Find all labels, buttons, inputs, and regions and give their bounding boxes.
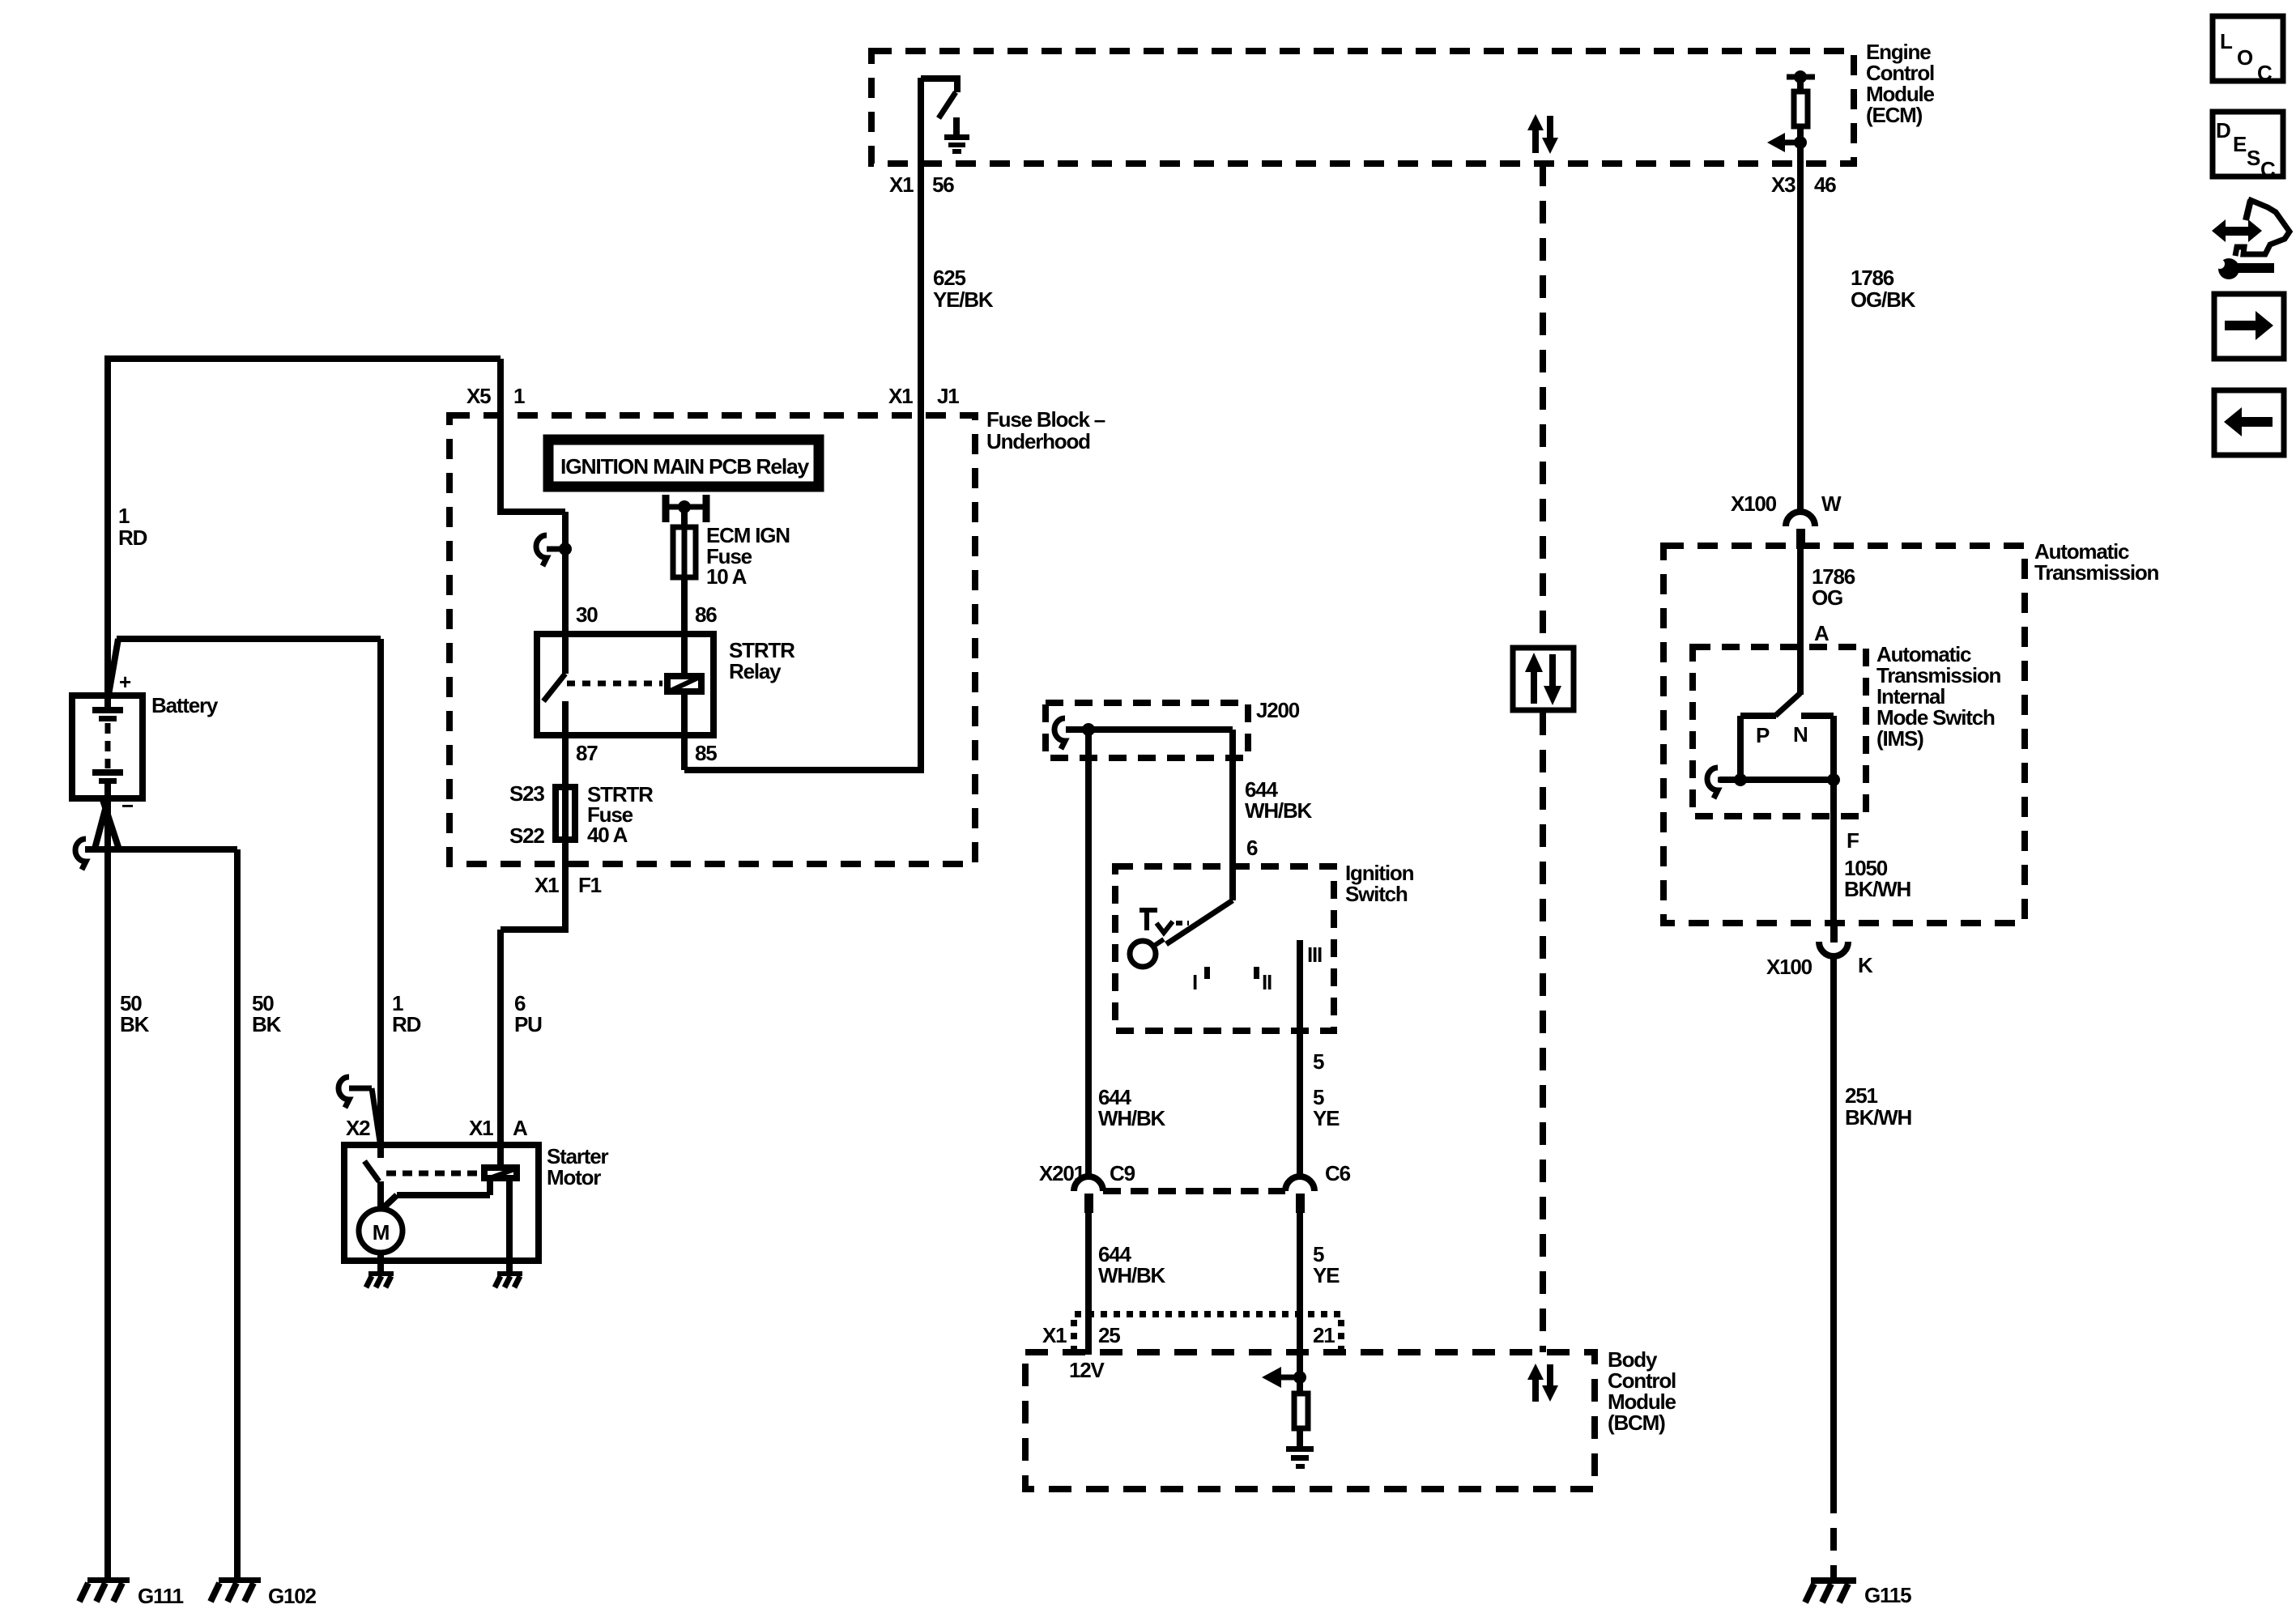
ground G115 [1805,1577,1856,1602]
label 644 WH/BK (above C9) [1098,1085,1166,1130]
label Automatic Transmission Internal Mode Switch (IMS) [1876,642,2001,751]
svg-text:J200: J200 [1256,698,1300,722]
wire battery positive vertical to top rail [104,359,111,696]
label S22 [509,823,544,848]
label pin 86 [695,602,717,627]
svg-text:OG/BK: OG/BK [1851,287,1916,312]
connector X100 pin K [1819,923,1848,956]
battery negative sign [121,794,134,818]
wire fuse to relay pin 86 [681,580,688,673]
svg-text:Fuse Block –: Fuse Block – [986,407,1105,432]
svg-text:RD: RD [118,526,147,550]
ground under solenoid [495,1271,522,1287]
svg-text:BK: BK [120,1012,150,1036]
svg-text:5: 5 [1313,1049,1324,1074]
ECM serial data arrows [1527,114,1558,154]
wire J200 bus [1066,726,1233,733]
svg-text:IGNITION MAIN PCB Relay: IGNITION MAIN PCB Relay [560,454,810,479]
svg-text:C6: C6 [1325,1161,1351,1185]
sidebar LOC icon [2213,16,2283,85]
dashed harness link X201 [1103,1188,1285,1194]
BCM dashed box [1025,1352,1595,1489]
label connector X1 pin F1 [535,873,602,897]
svg-text:Motor: Motor [547,1165,601,1189]
wire solenoid to ground [506,1181,513,1273]
label 5 YE (below C6) [1313,1242,1340,1287]
relay actuation dashed link [567,681,662,687]
IMS contact N [1801,716,1834,780]
svg-text:A: A [1814,621,1830,645]
svg-text:C: C [2260,157,2276,181]
svg-text:E: E [2233,132,2247,156]
label X100 W [1731,491,1842,516]
svg-text:P: P [1756,723,1770,747]
splice at battery negative terminal [94,800,120,852]
svg-text:X1: X1 [1042,1323,1067,1347]
wire 1 RD down to starter motor X2 [377,639,384,1158]
sidebar next arrow icon [2214,294,2284,359]
label connector X1 pin J1 [888,384,959,408]
svg-text:S: S [2247,146,2260,170]
IGNITION MAIN PCB Relay label box [548,440,819,487]
BCM internal signal ground [1286,1446,1314,1469]
ECM internal pull-up resistor [1787,70,1815,146]
label X1 (BCM connector) [1042,1323,1067,1347]
wire down to G102 [234,849,241,1579]
fuse ECM IGN 10A [673,527,696,577]
BCM connector dotted box X1 [1074,1314,1341,1352]
wire X100 W into IMS (1786 OG) [1797,549,1804,695]
svg-text:10 A: 10 A [706,564,748,589]
label STRTR Fuse 40 A [587,782,654,847]
label pin 85 [695,741,717,765]
svg-text:X100: X100 [1766,955,1813,979]
svg-text:X1: X1 [888,384,913,408]
svg-text:46: 46 [1814,172,1836,197]
svg-text:I: I [1192,970,1197,994]
svg-text:F1: F1 [578,873,602,897]
svg-text:251: 251 [1845,1083,1878,1108]
junction dot relay 30 feed [559,543,572,555]
svg-text:II: II [1262,970,1272,994]
svg-text:625: 625 [933,266,966,290]
sidebar previous arrow icon [2214,390,2284,455]
svg-text:12V: 12V [1069,1358,1105,1382]
sidebar DESC icon [2213,112,2283,181]
svg-text:56: 56 [932,172,954,197]
BCM pull-down resistor [1294,1377,1308,1447]
IMS common bus [1719,777,1836,783]
junction dot IMS N [1827,773,1840,786]
svg-text:85: 85 [695,741,717,765]
svg-text:N: N [1793,722,1808,747]
label ECM IGN Fuse 10 A [706,523,790,589]
label 1050 BK/WH [1844,856,1911,901]
svg-text:(IMS): (IMS) [1876,726,1923,751]
wire 251 BK/WH down [1830,956,1837,1491]
label X100 K [1766,953,1873,979]
svg-text:WH/BK: WH/BK [1098,1263,1166,1287]
wire negative horizontal to G102 branch [85,846,237,853]
svg-text:A: A [513,1116,528,1140]
label N [1793,722,1808,747]
label Fuse Block Underhood [986,407,1105,453]
label 1 RD (battery feed) [118,504,147,550]
junction dot IMS P [1734,773,1747,786]
svg-text:1786: 1786 [1851,266,1894,290]
label X201 [1039,1161,1085,1185]
J200 dashed box [1046,703,1248,758]
ignition position II mark [1254,967,1272,994]
ignition position III mark [1307,943,1322,967]
svg-text:25: 25 [1098,1323,1120,1347]
starter solenoid dashed link [386,1171,479,1177]
svg-text:X1: X1 [889,172,914,197]
wire ECM 56 down through fuse block (625 YE/BK) [918,78,924,773]
label 12V [1069,1358,1105,1382]
svg-text:6: 6 [1246,836,1258,860]
label connector X3 pin 46 [1771,172,1836,197]
wire X5 drop into fuse block [497,359,504,512]
label pin 87 [576,741,598,765]
clip at IMS bus [1707,768,1737,798]
fuse block underhood dashed box [449,415,975,864]
label C6 [1325,1161,1351,1185]
label pin 21 [1313,1323,1335,1347]
label Ignition Switch [1345,861,1414,906]
label pin 30 [576,602,598,627]
svg-text:L: L [2220,29,2233,53]
label G115 [1864,1583,1911,1607]
IMS selector blade [1775,693,1800,716]
label J200 [1256,698,1300,722]
wire C9 to BCM pin 25 [1085,1213,1092,1355]
starter motor box [344,1145,539,1261]
fuse STRTR 40A [556,787,575,840]
svg-text:S22: S22 [509,823,544,848]
label S23 [509,781,544,806]
label Battery [151,693,219,717]
label pin A [1814,621,1830,645]
svg-text:40 A: 40 A [587,823,628,847]
svg-text:1: 1 [513,384,525,408]
starter solenoid coil [484,1168,517,1179]
svg-text:WH/BK: WH/BK [1245,798,1313,823]
svg-text:(BCM): (BCM) [1608,1411,1665,1435]
label 1786 OG [1812,564,1855,610]
wire relay coil to pin 85 [681,695,688,770]
wire 644 WH/BK left branch down to C9 [1085,730,1092,1177]
svg-text:87: 87 [576,741,598,765]
label P [1756,723,1770,747]
starter contact blade [364,1161,381,1210]
svg-text:+: + [119,670,131,694]
svg-text:PU: PU [514,1012,542,1036]
ECM dashed box [871,51,1854,164]
ignition switch dashed box [1115,866,1334,1031]
label connector X5 pin 1 [466,384,525,408]
svg-text:G115: G115 [1864,1583,1911,1607]
label pin F [1847,828,1859,853]
svg-text:X1: X1 [469,1116,493,1140]
label 6 PU [514,991,542,1036]
relay coil [667,676,701,691]
svg-text:W: W [1821,491,1842,516]
label 251 BK/WH [1845,1083,1912,1130]
ECM output arrow [1767,133,1801,152]
wire battery positive to starter feed (1 RD) [108,639,381,700]
svg-text:F: F [1847,828,1859,853]
starter motor M circle [359,1209,403,1253]
dashed serial data wire arrow box to BCM [1540,713,1546,1352]
wire relay 87 to STRTR fuse [562,735,569,785]
svg-text:X5: X5 [466,384,491,408]
svg-text:III: III [1307,943,1322,967]
label pin 6 [1246,836,1258,860]
svg-text:30: 30 [576,602,598,627]
ignition key symbol [1130,910,1189,967]
svg-text:BK: BK [252,1012,282,1036]
svg-text:Switch: Switch [1345,882,1408,906]
svg-text:1: 1 [118,504,130,528]
label 50 BK (left) [120,991,150,1036]
wire solenoid output to motor [382,1181,490,1209]
battery positive sign [119,670,131,694]
clip at relay pin 30 feed [536,535,562,566]
label G111 [138,1584,184,1608]
svg-text:S23: S23 [509,781,544,806]
junction dot J200 [1082,723,1095,736]
label Starter Motor [547,1144,608,1189]
BCM input arrow [1262,1367,1300,1388]
BCM serial data arrows [1527,1364,1558,1402]
label STRTR Relay [729,638,795,683]
connector X201 C6 [1285,1177,1314,1213]
label 5 YE (above C6) [1313,1085,1340,1130]
wire bracket to ECM IGN fuse [681,507,688,525]
label Automatic Transmission [2034,539,2159,585]
label 50 BK (right) [252,991,282,1036]
label pin 25 [1098,1323,1120,1347]
wire jog to 6 PU column [501,930,569,1164]
svg-text:21: 21 [1313,1323,1335,1347]
wire ECM X3-46 down to X100 W (1786 OG/BK) [1797,143,1804,513]
battery [72,696,143,798]
svg-text:X3: X3 [1771,172,1795,197]
relay switch blade 30-87 [543,634,565,735]
svg-text:X1: X1 [535,873,559,897]
svg-text:M: M [373,1220,389,1245]
ignition position I mark [1192,967,1210,994]
svg-text:Underhood: Underhood [986,429,1090,453]
label X2 [346,1116,370,1140]
svg-text:O: O [2237,45,2253,70]
connector X100 pin W [1786,512,1815,549]
svg-text:WH/BK: WH/BK [1098,1106,1166,1130]
ECM internal signal ground [944,117,969,154]
relay STRTR box [537,634,714,735]
ground under motor [366,1271,394,1287]
ground G102 [211,1577,261,1602]
svg-text:Relay: Relay [729,659,782,683]
connector X201 C9 [1074,1177,1103,1213]
wire top horizontal rail from battery to X5 [104,355,501,362]
svg-text:Transmission: Transmission [2034,560,2159,585]
junction dot ECM output [1794,136,1807,149]
label pin 5 [1313,1049,1324,1074]
svg-text:BK/WH: BK/WH [1845,1105,1912,1130]
svg-text:G102: G102 [268,1584,317,1608]
svg-text:86: 86 [695,602,717,627]
serial data arrow box [1513,648,1574,710]
wire motor to ground [377,1253,384,1273]
svg-text:K: K [1858,953,1873,977]
label 1786 OG/BK [1851,266,1916,312]
wire into relay pin 30 [562,512,569,634]
sidebar vehicle diagnostic icon [2212,199,2290,279]
wire pin 85 to X1 J1 column [684,767,921,773]
label X1 (starter) [469,1116,493,1140]
IMS dashed box [1693,647,1866,816]
svg-text:C9: C9 [1110,1161,1135,1185]
label 644 WH/BK (top) [1245,777,1313,823]
clip at starter X2 [339,1077,380,1142]
dashed serial data wire ECM to arrow box [1540,164,1546,645]
svg-text:−: − [121,794,134,818]
label C9 [1110,1161,1135,1185]
wire STRTR fuse to X1 F1 and down [562,842,569,930]
IMS contact P [1740,716,1776,780]
svg-text:J1: J1 [937,384,959,408]
svg-text:X100: X100 [1731,491,1777,516]
wire 644 WH/BK right branch into ignition switch [1229,730,1236,900]
label 644 WH/BK (below C9) [1098,1242,1166,1287]
svg-text:BK/WH: BK/WH [1844,877,1911,901]
junction dot BCM pin 21 [1293,1371,1306,1384]
wire battery negative down to G111 [104,798,111,1579]
label G102 [268,1584,317,1608]
svg-text:Battery: Battery [151,693,219,717]
svg-text:OG: OG [1812,585,1842,610]
ECM internal switch to ground [921,75,957,118]
ignition switch rotor blade [1166,900,1233,944]
svg-text:RD: RD [392,1012,421,1036]
label connector X1 pin 56 [889,172,954,197]
svg-text:X2: X2 [346,1116,370,1140]
label Engine Control Module (ECM) [1866,40,1935,127]
ground G111 [79,1577,130,1602]
label 625 YE/BK [933,266,994,312]
clip at J200 [1054,718,1065,749]
svg-text:D: D [2216,118,2230,143]
dashed wire to G115 [1830,1491,1837,1577]
wire ignition III contact down to C6 [1297,940,1303,1177]
clip at battery negative [75,839,86,870]
automatic transmission dashed box [1663,546,2025,923]
svg-text:G111: G111 [138,1584,184,1608]
wire jog to relay pin 30 column [497,509,565,515]
svg-text:(ECM): (ECM) [1866,103,1923,127]
svg-text:X201: X201 [1039,1161,1085,1185]
svg-text:YE: YE [1313,1263,1340,1287]
label 1 RD (starter feed) [392,991,421,1036]
svg-text:YE: YE [1313,1106,1340,1130]
label pin A [513,1116,528,1140]
svg-text:YE/BK: YE/BK [933,287,994,312]
label Body Control Module (BCM) [1608,1347,1676,1435]
svg-text:C: C [2257,61,2273,85]
PCB connector bracket above ECM IGN fuse [664,495,708,522]
wire C6 to BCM pin 21 [1297,1213,1303,1377]
wire IMS output down (1050 BK/WH) [1830,780,1837,923]
